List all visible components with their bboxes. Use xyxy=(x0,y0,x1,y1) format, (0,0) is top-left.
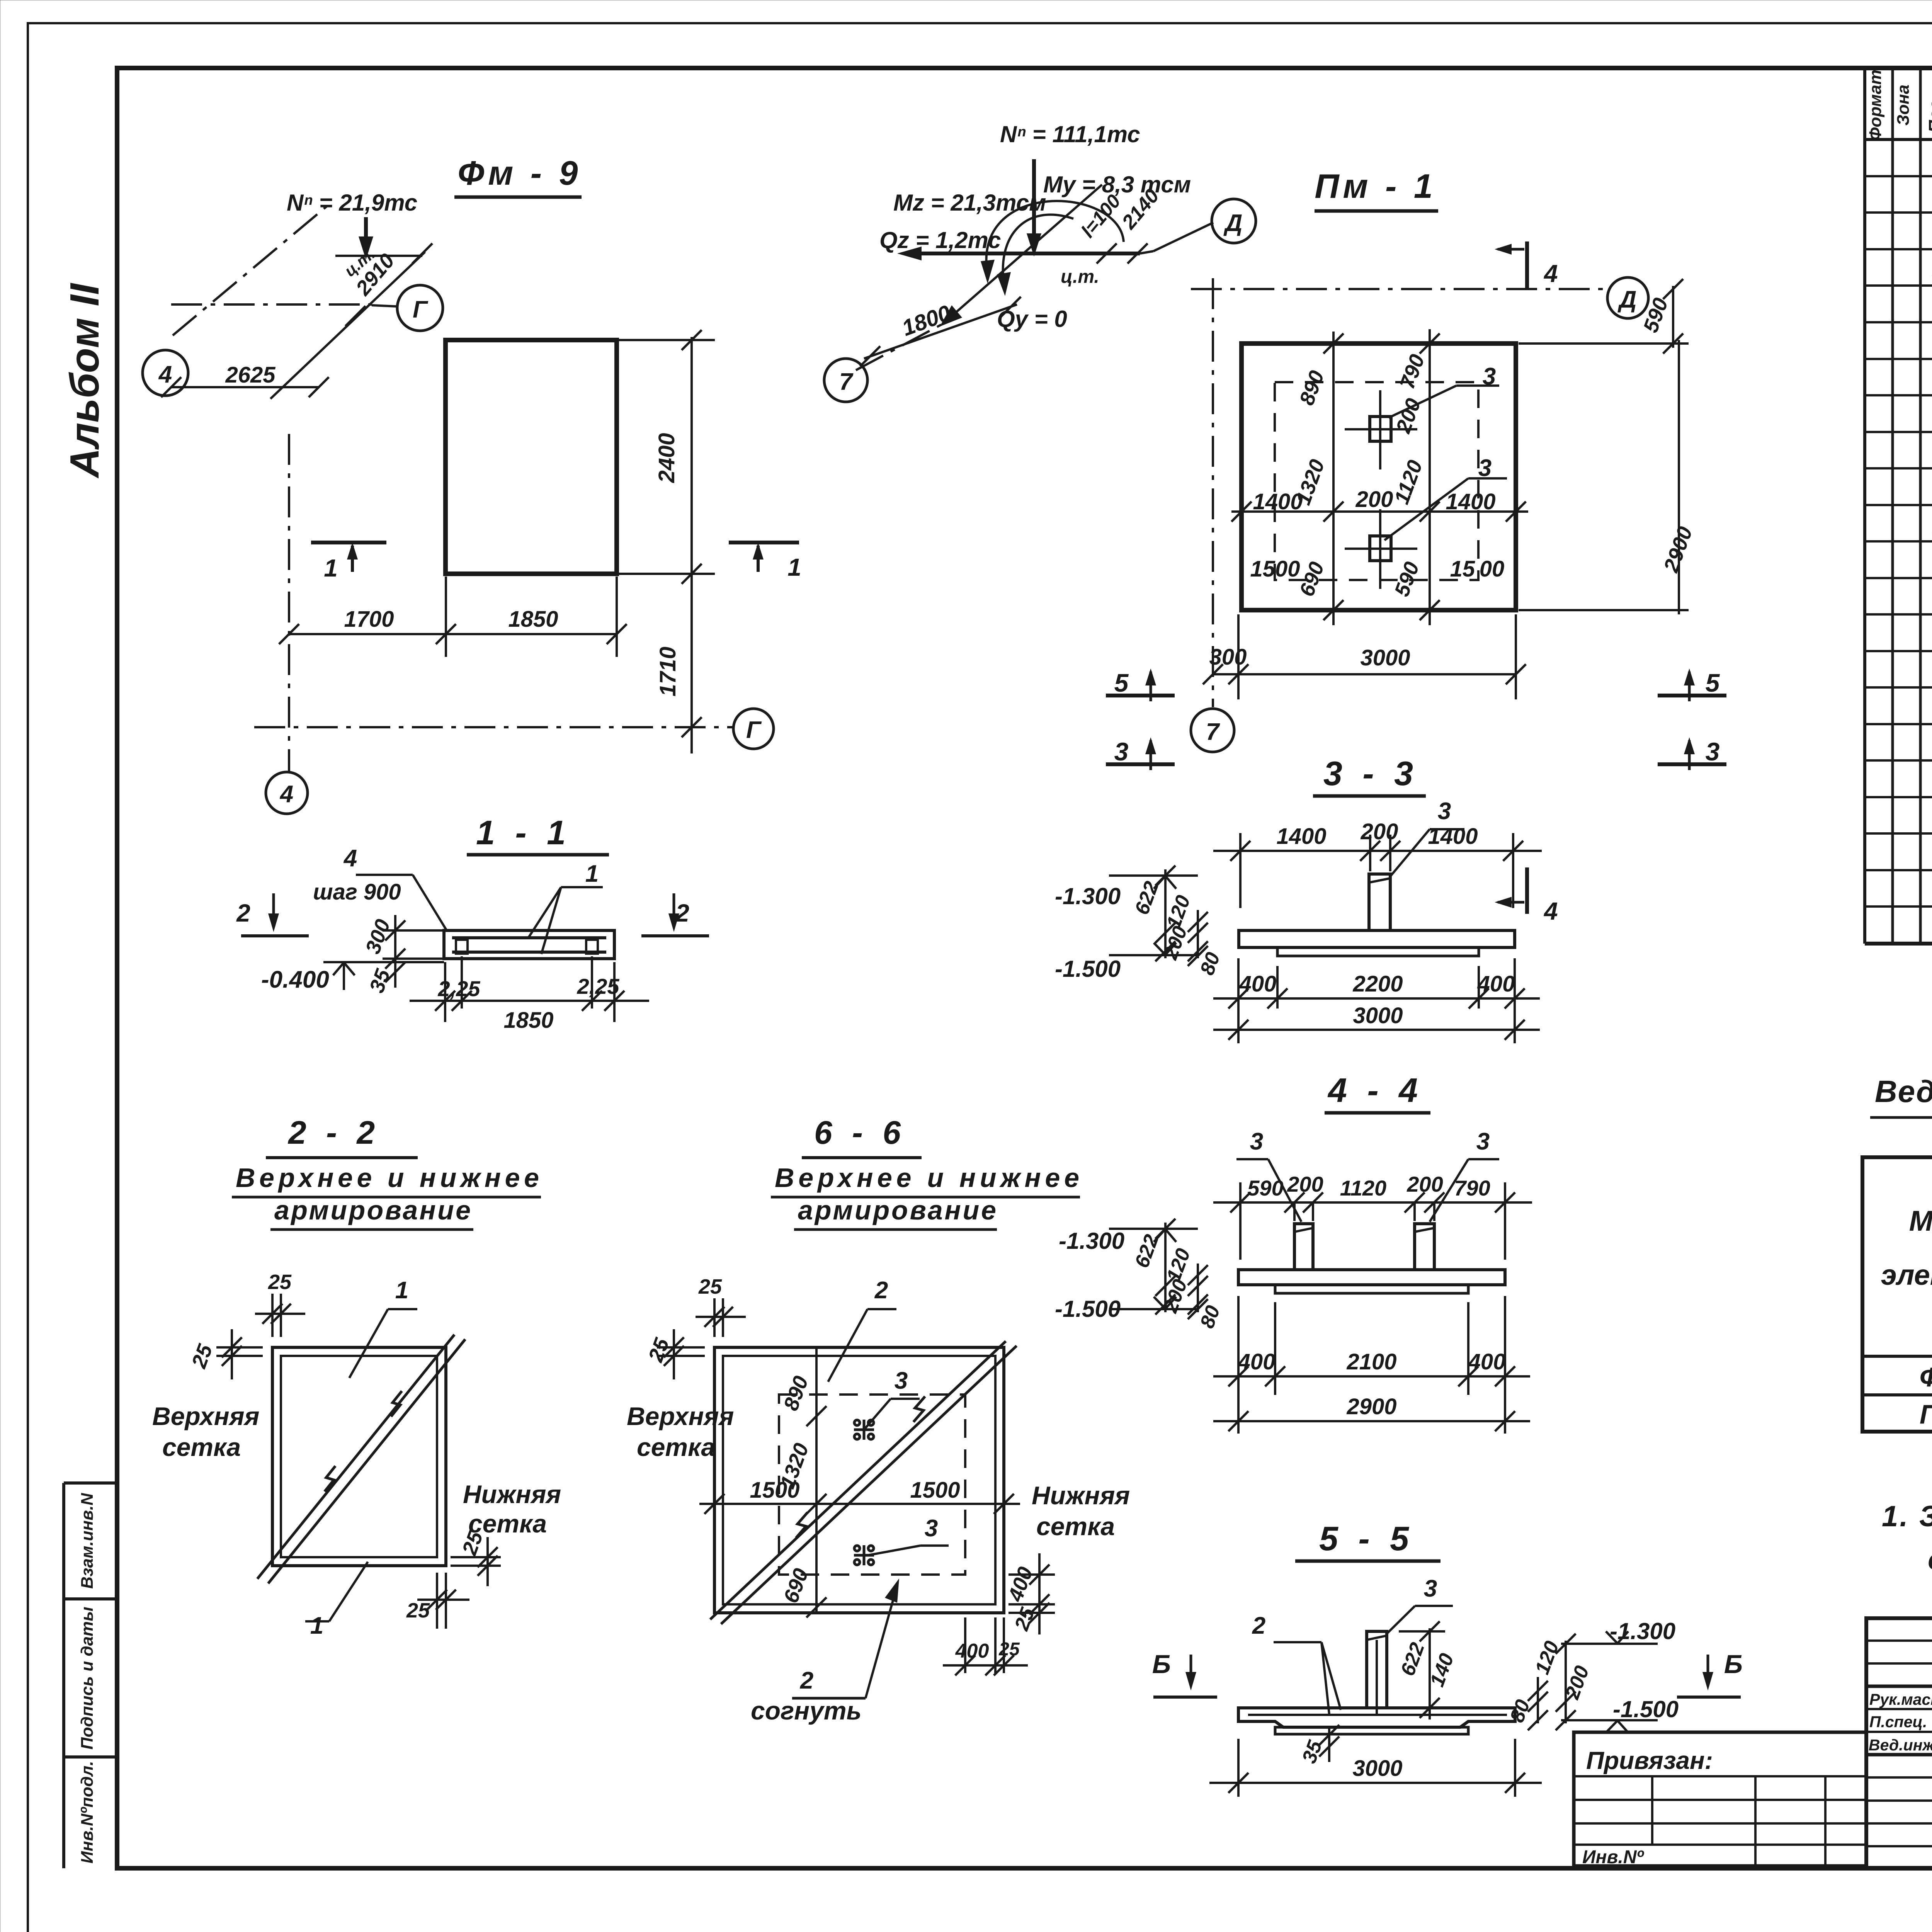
svg-text:2: 2 xyxy=(800,1667,813,1694)
svg-text:120: 120 xyxy=(1531,1638,1563,1677)
svg-text:Б: Б xyxy=(1152,1650,1171,1679)
FM-9 load diagram xyxy=(143,154,582,399)
svg-text:Инв.Nº: Инв.Nº xyxy=(1582,1847,1645,1867)
svg-text:-1.300: -1.300 xyxy=(1055,883,1121,909)
svg-text:590: 590 xyxy=(1247,1176,1283,1200)
svg-text:1120: 1120 xyxy=(1390,457,1427,507)
svg-text:15 00: 15 00 xyxy=(1450,556,1505,582)
svg-text:200: 200 xyxy=(1355,487,1393,512)
svg-text:сетка: сетка xyxy=(162,1433,241,1461)
svg-text:армирование: армирование xyxy=(274,1195,471,1225)
FM-9 plan xyxy=(254,330,801,814)
svg-text:3: 3 xyxy=(1114,737,1129,766)
note text xyxy=(1882,1500,1932,1576)
svg-text:Mz = 21,3тсм: Mz = 21,3тсм xyxy=(893,190,1046,216)
svg-text:590: 590 xyxy=(1639,295,1672,335)
svg-text:590: 590 xyxy=(1390,559,1423,599)
specification table header xyxy=(1866,70,1932,141)
svg-text:-1.500: -1.500 xyxy=(1055,956,1121,982)
svg-text:3: 3 xyxy=(1438,798,1451,825)
svg-text:Ведомость расхода стали на эле: Ведомость расхода стали на элемент, кг xyxy=(1875,1074,1932,1109)
svg-text:120: 120 xyxy=(1162,1245,1195,1284)
svg-text:25: 25 xyxy=(406,1599,430,1622)
svg-text:790: 790 xyxy=(1454,1176,1490,1200)
svg-text:200: 200 xyxy=(1361,819,1398,844)
svg-text:сетка: сетка xyxy=(637,1433,715,1461)
svg-text:Привязан:: Привязан: xyxy=(1586,1747,1713,1774)
svg-text:Верхняя: Верхняя xyxy=(152,1402,259,1430)
svg-text:3000: 3000 xyxy=(1353,1003,1403,1028)
svg-text:120: 120 xyxy=(1162,892,1195,931)
svg-text:Поз.: Поз. xyxy=(1925,95,1932,133)
svg-text:2: 2 xyxy=(874,1277,888,1304)
svg-text:2 - 2: 2 - 2 xyxy=(287,1114,380,1151)
svg-text:4: 4 xyxy=(158,361,172,388)
svg-text:2200: 2200 xyxy=(1352,971,1403,997)
svg-text:Альбом II: Альбом II xyxy=(62,282,107,479)
svg-text:2900: 2900 xyxy=(1346,1394,1396,1419)
svg-text:3 - 3: 3 - 3 xyxy=(1323,754,1418,793)
specification table content FM-9 xyxy=(1932,145,1932,354)
svg-text:отм. 0.000: отм. 0.000 xyxy=(1928,1543,1932,1576)
specification table grid xyxy=(1865,70,1932,944)
svg-text:1500: 1500 xyxy=(910,1478,960,1503)
svg-text:400: 400 xyxy=(1468,1349,1506,1374)
svg-text:-1.500: -1.500 xyxy=(1613,1696,1679,1722)
svg-text:1500: 1500 xyxy=(750,1478,799,1503)
svg-text:1. Значения нагрузок даны для: 1. Значения нагрузок даны для сечения на xyxy=(1882,1500,1932,1533)
svg-text:25: 25 xyxy=(268,1270,292,1294)
svg-text:Подпись и даты: Подпись и даты xyxy=(78,1607,97,1750)
svg-text:622: 622 xyxy=(1396,1639,1429,1679)
svg-text:25: 25 xyxy=(998,1639,1020,1660)
svg-text:согнуть: согнуть xyxy=(751,1696,862,1725)
svg-text:3: 3 xyxy=(1250,1128,1263,1155)
svg-text:1 - 1: 1 - 1 xyxy=(476,813,571,852)
svg-text:300: 300 xyxy=(361,916,395,957)
section 5-5 xyxy=(1152,1519,1743,1797)
svg-text:4: 4 xyxy=(343,845,357,872)
section 2-2 xyxy=(152,1114,561,1639)
svg-text:Nⁿ = 111,1тс: Nⁿ = 111,1тс xyxy=(1000,121,1140,147)
svg-text:3: 3 xyxy=(895,1367,908,1394)
steel consumption table title xyxy=(1870,1074,1932,1117)
svg-text:Нижняя: Нижняя xyxy=(463,1480,561,1509)
svg-text:2: 2 xyxy=(1252,1612,1265,1639)
svg-text:1: 1 xyxy=(395,1277,408,1304)
section 6-6 xyxy=(627,1114,1130,1725)
svg-text:П.спец.: П.спец. xyxy=(1869,1713,1927,1731)
svg-text:2,25: 2,25 xyxy=(577,974,620,998)
svg-text:Nⁿ = 21,9тс: Nⁿ = 21,9тс xyxy=(287,190,417,216)
svg-text:1850: 1850 xyxy=(503,1008,553,1033)
svg-text:-0.400: -0.400 xyxy=(261,966,329,993)
svg-text:400: 400 xyxy=(1477,971,1515,997)
title block text xyxy=(1869,1638,1932,1900)
svg-text:25: 25 xyxy=(698,1275,722,1298)
svg-text:200: 200 xyxy=(1159,923,1192,963)
svg-text:690: 690 xyxy=(779,1565,813,1606)
svg-text:Qz = 1,2тс: Qz = 1,2тс xyxy=(879,227,1001,253)
svg-text:2100: 2100 xyxy=(1346,1349,1396,1374)
svg-text:5 - 5: 5 - 5 xyxy=(1319,1519,1414,1558)
PM-1 load diagram xyxy=(824,121,1438,402)
svg-text:сетка: сетка xyxy=(1036,1512,1115,1541)
title block xyxy=(1866,1618,1932,1868)
svg-text:1850: 1850 xyxy=(508,607,558,632)
svg-text:200: 200 xyxy=(1406,1172,1443,1196)
svg-text:890: 890 xyxy=(1295,367,1328,408)
svg-text:400: 400 xyxy=(1238,1349,1276,1374)
svg-text:1500: 1500 xyxy=(1250,556,1300,582)
svg-text:3: 3 xyxy=(1424,1575,1437,1602)
svg-text:4: 4 xyxy=(1543,897,1558,925)
svg-text:армирование: армирование xyxy=(798,1195,996,1225)
steel consumption table text xyxy=(1881,1165,1932,1430)
svg-text:Марка: Марка xyxy=(1909,1205,1932,1237)
svg-text:Рук.маст.: Рук.маст. xyxy=(1869,1690,1932,1708)
svg-text:200: 200 xyxy=(1287,1172,1323,1196)
svg-text:Д: Д xyxy=(1223,210,1243,236)
svg-text:сетка: сетка xyxy=(468,1509,547,1538)
svg-text:2900: 2900 xyxy=(1659,524,1697,575)
svg-text:шаг 900: шаг 900 xyxy=(313,879,401,905)
svg-text:-1.300: -1.300 xyxy=(1610,1618,1675,1644)
svg-text:6 - 6: 6 - 6 xyxy=(814,1114,906,1151)
svg-text:Г: Г xyxy=(746,717,762,743)
svg-text:3000: 3000 xyxy=(1352,1756,1402,1781)
svg-text:2: 2 xyxy=(675,899,689,927)
svg-text:1: 1 xyxy=(585,861,599,887)
PM-1 plan xyxy=(1106,241,1726,925)
svg-text:3000: 3000 xyxy=(1360,645,1410,670)
svg-text:400: 400 xyxy=(1239,971,1277,997)
svg-text:4 - 4: 4 - 4 xyxy=(1327,1071,1423,1109)
svg-text:2,25: 2,25 xyxy=(438,976,481,1001)
svg-text:элемента: элемента xyxy=(1881,1259,1932,1291)
svg-text:7: 7 xyxy=(1206,719,1220,745)
svg-text:Пм-1: Пм-1 xyxy=(1920,1399,1932,1429)
svg-text:Формат: Формат xyxy=(1866,70,1885,141)
section 1-1 xyxy=(236,813,709,1033)
svg-text:-1.500: -1.500 xyxy=(1055,1296,1121,1322)
svg-text:Д: Д xyxy=(1617,286,1637,313)
svg-text:Зона: Зона xyxy=(1894,85,1913,126)
svg-text:Б: Б xyxy=(1724,1650,1743,1679)
svg-text:4: 4 xyxy=(1543,260,1558,287)
svg-text:1710: 1710 xyxy=(655,646,680,696)
svg-text:Г: Г xyxy=(413,296,429,323)
section 4-4 xyxy=(1055,1071,1532,1434)
svg-text:Пм - 1: Пм - 1 xyxy=(1315,167,1437,205)
svg-text:1: 1 xyxy=(310,1612,323,1639)
svg-text:790: 790 xyxy=(1395,351,1429,392)
svg-text:5: 5 xyxy=(1706,668,1720,697)
svg-text:Инв.Nºподл.: Инв.Nºподл. xyxy=(78,1761,97,1863)
svg-text:4: 4 xyxy=(279,781,293,808)
svg-text:35: 35 xyxy=(365,966,395,996)
svg-text:1: 1 xyxy=(787,553,801,581)
svg-text:3: 3 xyxy=(1476,1128,1490,1155)
svg-text:1400: 1400 xyxy=(1276,824,1326,849)
svg-text:3: 3 xyxy=(925,1515,938,1542)
svg-text:690: 690 xyxy=(1295,559,1328,599)
svg-text:ц.т.: ц.т. xyxy=(1061,267,1099,287)
section 3-3 xyxy=(1055,754,1542,1043)
svg-text:25: 25 xyxy=(187,1341,217,1371)
svg-text:1800: 1800 xyxy=(899,300,954,341)
svg-text:1400: 1400 xyxy=(1428,824,1478,849)
svg-text:2625: 2625 xyxy=(225,362,276,388)
svg-text:1120: 1120 xyxy=(1340,1176,1386,1200)
svg-text:1: 1 xyxy=(324,554,338,582)
steel consumption table grid xyxy=(1862,1157,1932,1432)
svg-text:1400: 1400 xyxy=(1253,489,1303,514)
album label xyxy=(62,282,107,479)
svg-text:3: 3 xyxy=(1706,737,1720,766)
svg-text:400: 400 xyxy=(1003,1564,1037,1605)
margin stamp strip xyxy=(64,1483,117,1868)
svg-text:My = 8,3 тсм: My = 8,3 тсм xyxy=(1043,172,1191,197)
svg-text:890: 890 xyxy=(779,1373,813,1413)
svg-text:5: 5 xyxy=(1114,668,1129,697)
svg-text:l=100: l=100 xyxy=(1077,190,1125,241)
svg-text:1700: 1700 xyxy=(344,607,394,632)
svg-text:-1.300: -1.300 xyxy=(1059,1228,1124,1254)
svg-text:Верхнее и нижнее: Верхнее и нижнее xyxy=(236,1163,539,1193)
svg-text:1400: 1400 xyxy=(1446,489,1495,514)
svg-text:Взам.инв.N: Взам.инв.N xyxy=(78,1493,97,1589)
svg-text:7: 7 xyxy=(839,369,854,395)
svg-text:2: 2 xyxy=(236,899,250,927)
svg-text:Фм - 9: Фм - 9 xyxy=(458,154,582,192)
svg-text:Верхняя: Верхняя xyxy=(627,1402,734,1430)
svg-text:Нижняя: Нижняя xyxy=(1032,1481,1130,1510)
privyazan box xyxy=(1574,1732,1866,1867)
svg-text:Вед.инж.: Вед.инж. xyxy=(1869,1736,1932,1754)
svg-text:2400: 2400 xyxy=(654,433,679,483)
svg-text:Фм-9: Фм-9 xyxy=(1920,1362,1932,1392)
svg-text:300: 300 xyxy=(1209,645,1247,670)
svg-text:Верхнее и нижнее: Верхнее и нижнее xyxy=(775,1163,1079,1193)
